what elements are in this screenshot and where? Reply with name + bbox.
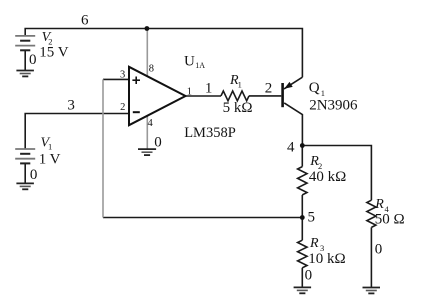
svg-text:2: 2 <box>265 81 273 97</box>
svg-text:40 kΩ: 40 kΩ <box>309 169 346 185</box>
svg-text:0: 0 <box>375 242 383 258</box>
svg-text:4: 4 <box>148 118 154 129</box>
svg-text:0: 0 <box>30 167 38 183</box>
svg-text:0: 0 <box>154 135 162 151</box>
svg-text:5: 5 <box>308 209 316 225</box>
svg-text:Q: Q <box>309 80 320 96</box>
svg-text:5 kΩ: 5 kΩ <box>223 100 253 116</box>
svg-text:0: 0 <box>29 52 37 68</box>
svg-text:10 kΩ: 10 kΩ <box>308 251 345 267</box>
svg-text:0: 0 <box>305 267 313 283</box>
svg-text:U: U <box>184 54 195 70</box>
svg-text:4: 4 <box>287 140 295 156</box>
svg-text:2: 2 <box>120 102 125 113</box>
svg-text:3: 3 <box>120 70 125 81</box>
svg-text:1: 1 <box>187 86 192 97</box>
svg-text:1: 1 <box>238 79 242 89</box>
svg-text:LM358P: LM358P <box>184 125 236 141</box>
svg-text:15 V: 15 V <box>39 45 68 61</box>
svg-text:50 Ω: 50 Ω <box>375 211 405 227</box>
svg-text:6: 6 <box>81 12 89 28</box>
svg-text:2: 2 <box>48 36 52 46</box>
svg-text:1: 1 <box>48 142 52 152</box>
svg-text:2N3906: 2N3906 <box>309 98 358 114</box>
svg-text:1: 1 <box>205 81 213 97</box>
svg-text:1A: 1A <box>195 61 205 70</box>
svg-text:1: 1 <box>321 88 325 98</box>
svg-text:8: 8 <box>149 64 154 75</box>
svg-text:3: 3 <box>320 243 324 253</box>
svg-text:3: 3 <box>67 98 75 114</box>
svg-text:1 V: 1 V <box>39 152 61 168</box>
svg-text:R: R <box>374 197 384 212</box>
svg-text:2: 2 <box>318 161 322 171</box>
svg-text:R: R <box>309 236 319 251</box>
